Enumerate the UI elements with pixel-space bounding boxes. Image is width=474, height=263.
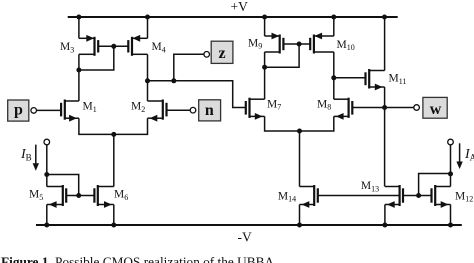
label M11 [389, 73, 407, 86]
wire M4 drain to M2 drain [147, 54, 149, 101]
wire M10 source drop [333, 17, 335, 36]
transistor M1 [61, 100, 79, 122]
wire M14-M13 gate line [318, 195, 400, 197]
node bias gates [416, 193, 421, 198]
terminal box w [423, 97, 447, 118]
wire M9 diode link [265, 44, 300, 67]
wire M5-M6 gate line [66, 195, 94, 197]
node tail of M7-M8 [297, 129, 302, 134]
wire w line [385, 107, 414, 109]
transistor M4 [128, 35, 147, 56]
transistor M10 [310, 33, 334, 54]
wire M8 gate to w line [352, 107, 384, 109]
label M10 [337, 39, 355, 52]
terminal circle p [31, 108, 37, 114]
node -V/M5 [44, 223, 49, 228]
wire M13-M12 gate line [403, 195, 432, 197]
-V power rail [36, 224, 462, 226]
wire IA column [450, 145, 452, 187]
wire z tap riser [174, 54, 204, 81]
terminal circle IA [448, 139, 454, 145]
svg-text:p: p [14, 102, 23, 119]
node +V/M4 source [145, 15, 150, 20]
wire M9-M10 gate line [283, 43, 310, 45]
-V label [238, 229, 252, 244]
terminal circle w [414, 105, 420, 111]
+V label [231, 0, 249, 14]
transistor M14 [300, 185, 318, 208]
transistor M3 [79, 35, 98, 56]
node IA/M12 drain [448, 171, 453, 176]
terminal circle IB [44, 139, 50, 145]
node -V/M13 [382, 223, 387, 228]
wire M11 gate line [334, 77, 366, 79]
wire IB column [46, 145, 48, 187]
wire M6 source drop [113, 205, 115, 226]
node -V/M6 [111, 223, 116, 228]
wire M5 source drop [46, 205, 48, 226]
transistor M13 [385, 185, 403, 208]
transistor M7 [246, 98, 265, 120]
terminal box n [199, 100, 221, 121]
svg-text:z: z [218, 45, 225, 62]
node -V/M14 [297, 223, 302, 228]
transistor M6 [94, 185, 113, 208]
label IA [464, 147, 474, 163]
node +V/M9 source [262, 15, 267, 20]
node M9-M10 gates [297, 42, 302, 47]
wire M3 diode link [79, 46, 114, 70]
wire M1-M2 tail [79, 118, 148, 134]
wire M5 diode link [47, 175, 79, 196]
label M12 [455, 190, 473, 203]
+V power rail [68, 16, 398, 18]
transistor M8 [334, 98, 353, 120]
wire M10 drain column [333, 52, 335, 99]
caption Figure 1 [1, 255, 274, 263]
label M13 [361, 180, 379, 193]
label M7 [267, 98, 281, 111]
svg-text:+V: +V [231, 0, 249, 14]
node M5-M6 gates [76, 193, 81, 198]
node z branch [171, 78, 176, 83]
node -V/M12 [448, 223, 453, 228]
svg-text:n: n [205, 102, 214, 119]
transistor M2 [148, 100, 167, 122]
label IB [20, 147, 32, 163]
wire M11 source column [384, 87, 386, 187]
label M5 [29, 189, 43, 202]
wire M7-M8 tail [265, 116, 334, 131]
wire M3-M4 gate line [98, 45, 128, 47]
transistor M12 [432, 185, 451, 208]
node z tap on drain column [145, 78, 150, 83]
wire z-node horizontal [148, 81, 246, 108]
wire tail drop to M14 drain [299, 131, 301, 187]
current arrow IB [33, 145, 39, 171]
wire M14 source drop [299, 205, 301, 226]
terminal box p [8, 100, 29, 121]
node w [382, 105, 387, 110]
node tail of M1-M2 [111, 132, 116, 137]
wire tail drop to M6 drain [113, 134, 115, 186]
terminal box z [211, 41, 233, 63]
wire p to M1 gate [37, 109, 62, 111]
wire M4 source drop [147, 17, 149, 38]
label M14 [278, 190, 296, 203]
wire M11 drain riser [384, 17, 386, 71]
wire M9 source drop [264, 17, 266, 36]
wire M12 source drop [450, 205, 452, 226]
label M8 [317, 98, 331, 111]
node M3-M4 gates [111, 44, 116, 49]
label M4 [152, 41, 166, 54]
node M11 gate tap [331, 75, 336, 80]
node +V/M11 drain [382, 15, 387, 20]
label M1 [83, 101, 97, 114]
svg-text:Figure 1. Possible CMOS realiz: Figure 1. Possible CMOS realization of t… [1, 255, 274, 263]
wire M13 source drop [384, 205, 386, 226]
wire M2 gate to n [167, 109, 191, 111]
node M3 drain [76, 68, 81, 73]
label M2 [131, 101, 145, 114]
wire M9 drain column [264, 52, 266, 99]
wire M3 drain column [78, 54, 80, 101]
transistor M9 [265, 33, 284, 54]
label M6 [114, 189, 128, 202]
transistor M11 [366, 69, 385, 90]
svg-text:-V: -V [238, 229, 252, 244]
current arrow IA [456, 143, 462, 169]
node +V/M3 source [76, 15, 81, 20]
transistor M5 [47, 185, 66, 208]
label M9 [248, 37, 262, 50]
terminal circle z [204, 52, 210, 58]
node +V/M10 source [331, 15, 336, 20]
node IB/M5 drain [44, 172, 49, 177]
terminal circle n [190, 107, 196, 113]
wire M3 source drop [78, 17, 80, 38]
wire M12 diode loop [419, 174, 451, 196]
label M3 [60, 41, 74, 54]
node M9 drain [262, 65, 267, 70]
svg-text:w: w [430, 101, 442, 118]
